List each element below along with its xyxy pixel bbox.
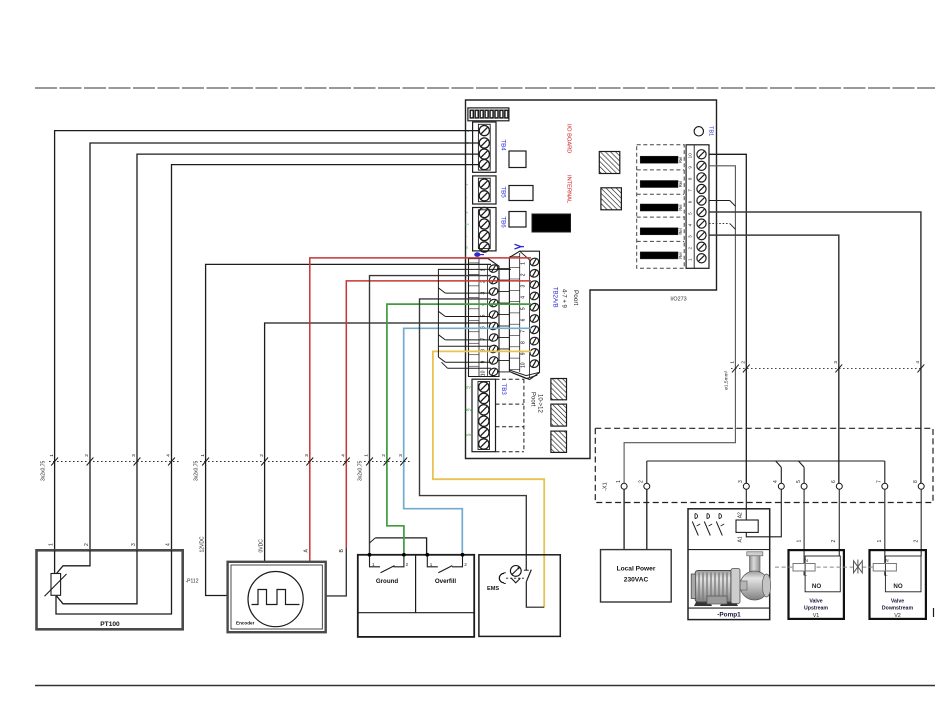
wire X1-8 to V2-2 bbox=[920, 489, 922, 556]
label Local Power 230VAC bbox=[617, 566, 656, 584]
label Poort 10->12 bbox=[530, 392, 543, 414]
svg-text:5: 5 bbox=[796, 480, 802, 483]
svg-text:Rel: Rel bbox=[678, 157, 683, 163]
cable marker o1,5mm2 bbox=[724, 361, 925, 390]
svg-text:3x2x0,75: 3x2x0,75 bbox=[194, 460, 200, 481]
Local Power box bbox=[601, 550, 672, 602]
PT100 wire number labels bbox=[49, 543, 172, 546]
svg-text:TB2A/B: TB2A/B bbox=[552, 287, 558, 308]
cable marker 3x2x0,75 PT100 bbox=[41, 454, 181, 481]
label Overfill bbox=[435, 578, 457, 585]
contactor coil A1/A2 bbox=[736, 512, 758, 543]
svg-text:Overfill: Overfill bbox=[435, 578, 457, 585]
svg-text:3: 3 bbox=[131, 543, 137, 546]
wire relay out 9 to X1-1 bbox=[624, 166, 735, 483]
wire X1-7 to V2 coil bbox=[884, 489, 886, 575]
TB6 green pin labels bbox=[465, 210, 470, 250]
svg-text:A2: A2 bbox=[738, 512, 744, 518]
relay K5 bbox=[640, 252, 683, 259]
blue node marker bbox=[474, 252, 484, 257]
svg-text:5: 5 bbox=[521, 307, 527, 310]
svg-text:Poort: Poort bbox=[530, 392, 536, 407]
TB4 green pin labels bbox=[465, 128, 469, 167]
svg-text:V2: V2 bbox=[894, 613, 901, 619]
svg-text:4: 4 bbox=[521, 296, 527, 299]
port hatched pad P12 bbox=[551, 431, 567, 452]
svg-text:-X1: -X1 bbox=[603, 482, 609, 491]
label -X1 bbox=[603, 482, 609, 491]
svg-text:9: 9 bbox=[688, 166, 693, 169]
label PT100 bbox=[100, 621, 120, 628]
svg-text:Upstream: Upstream bbox=[804, 606, 828, 612]
svg-text:Encoder: Encoder bbox=[236, 621, 255, 626]
svg-text:8: 8 bbox=[688, 177, 693, 180]
port 10-12 dashed box bbox=[496, 379, 524, 452]
label 4-7 + 9 bbox=[561, 289, 567, 309]
label EMS bbox=[487, 586, 499, 592]
text INTERNAL bbox=[566, 175, 572, 203]
relay K4 bbox=[640, 228, 683, 235]
wire X1-2 to local power bbox=[646, 489, 648, 549]
svg-text:4: 4 bbox=[341, 454, 346, 457]
encoder wire labels bbox=[200, 536, 345, 553]
svg-text:7: 7 bbox=[877, 480, 883, 483]
wire X1-3 to contactor coil A2 bbox=[745, 489, 747, 520]
svg-text:Local Power: Local Power bbox=[617, 566, 656, 573]
wire EMS return yellow bbox=[433, 351, 544, 607]
svg-text:3: 3 bbox=[833, 361, 838, 364]
wire PT100 conductor 3 bbox=[137, 154, 478, 550]
svg-text:I/O BOARD: I/O BOARD bbox=[566, 124, 572, 153]
svg-text:2: 2 bbox=[464, 562, 467, 567]
svg-text:TB1: TB1 bbox=[708, 126, 714, 136]
wire PT100 conductor 2 bbox=[90, 143, 478, 550]
svg-text:TB5: TB5 bbox=[500, 186, 507, 198]
svg-text:7: 7 bbox=[688, 189, 693, 192]
svg-text:TB6: TB6 bbox=[500, 216, 507, 228]
svg-text:Rel: Rel bbox=[678, 252, 683, 258]
X1 terminal circles 1-8 bbox=[616, 480, 924, 489]
label -Pomp1 bbox=[717, 612, 741, 619]
relay K3 bbox=[640, 204, 683, 211]
svg-text:3: 3 bbox=[398, 454, 403, 457]
IC U2 bbox=[509, 151, 526, 168]
RTD element R1 bbox=[45, 574, 67, 597]
svg-text:Valve: Valve bbox=[809, 599, 822, 605]
wire branch to overfill common bbox=[370, 538, 427, 555]
svg-text:TB4: TB4 bbox=[500, 139, 507, 151]
wire coil A1 to X1-4 bbox=[746, 489, 781, 537]
cable marker 3x2x0,75 encoder bbox=[194, 454, 353, 481]
mechanical link dashed bbox=[775, 566, 874, 568]
label Poort bbox=[572, 290, 579, 305]
terminal block TB4 bbox=[473, 122, 496, 172]
terminal block TB6 bbox=[473, 207, 496, 252]
svg-text:4: 4 bbox=[166, 454, 171, 457]
valve V1 box bbox=[789, 550, 844, 619]
svg-text:2: 2 bbox=[406, 562, 409, 567]
TB2A-TB2B mating links bbox=[497, 269, 509, 372]
header connector J1 bbox=[468, 108, 509, 121]
svg-text:INTERNAL: INTERNAL bbox=[566, 175, 572, 203]
svg-text:NO: NO bbox=[893, 583, 902, 590]
svg-text:2: 2 bbox=[381, 454, 386, 457]
svg-text:2: 2 bbox=[84, 543, 90, 546]
svg-text:Rel: Rel bbox=[678, 204, 683, 210]
svg-text:1: 1 bbox=[372, 562, 375, 567]
terminal block TB2A bbox=[469, 259, 500, 377]
svg-text:230VAC: 230VAC bbox=[624, 577, 649, 584]
svg-text:2: 2 bbox=[259, 454, 264, 457]
wire relay out 3 to X1-6 bbox=[709, 235, 839, 483]
wire relay out 4 dotted jog bbox=[709, 224, 735, 230]
IC U3 bbox=[509, 186, 533, 201]
svg-text:2: 2 bbox=[688, 246, 693, 249]
IC U5 black bbox=[532, 214, 571, 232]
label Ground bbox=[376, 578, 399, 585]
label NO V2 bbox=[893, 583, 902, 590]
svg-text:1: 1 bbox=[877, 540, 883, 543]
blue arrow marker A bbox=[515, 244, 525, 249]
svg-text:4: 4 bbox=[773, 480, 779, 483]
svg-text:A1: A1 bbox=[738, 536, 744, 542]
wire X1-1 to local power bbox=[623, 489, 625, 549]
wire encoder B red bbox=[326, 281, 531, 596]
svg-text:EMS: EMS bbox=[487, 586, 499, 592]
V1 solenoid coil bbox=[793, 558, 815, 577]
svg-text:3: 3 bbox=[738, 480, 744, 483]
top border line bbox=[35, 87, 935, 89]
svg-text:1: 1 bbox=[364, 454, 369, 457]
wire relay out 10 to X1-3 bbox=[709, 154, 746, 483]
svg-text:4: 4 bbox=[688, 223, 693, 226]
label Valve Upstream V1 bbox=[804, 599, 828, 620]
label TB6 bbox=[500, 216, 507, 228]
svg-text:8: 8 bbox=[913, 480, 919, 483]
svg-text:2: 2 bbox=[741, 361, 746, 364]
wire PT100 conductor 1 bbox=[55, 131, 478, 551]
svg-text:36V: 36V bbox=[465, 407, 472, 412]
svg-text:Ground: Ground bbox=[376, 578, 399, 585]
svg-text:7: 7 bbox=[521, 330, 527, 333]
svg-text:0VDC: 0VDC bbox=[259, 539, 265, 553]
svg-text:1: 1 bbox=[616, 480, 622, 483]
Ground/Overfill switch box bbox=[358, 555, 474, 637]
svg-text:1: 1 bbox=[430, 562, 433, 567]
TB5 green pin labels bbox=[466, 182, 469, 199]
valve V2 box bbox=[870, 550, 926, 619]
svg-text:4: 4 bbox=[915, 361, 920, 364]
PT100 sensor box bbox=[37, 550, 183, 629]
stray page mark bbox=[933, 608, 935, 617]
I/O board U1 outline bbox=[466, 100, 717, 459]
Encoder box bbox=[228, 562, 326, 632]
terminal block TB5 bbox=[473, 176, 496, 204]
svg-text:3x2x0,75: 3x2x0,75 bbox=[41, 460, 47, 481]
V2 solenoid coil bbox=[873, 558, 896, 577]
svg-text:I/O273: I/O273 bbox=[670, 297, 686, 303]
X1 common line terminals 2-4-5-7 bbox=[647, 461, 885, 483]
EMS box bbox=[479, 555, 560, 637]
wire PT100 conductor 4 bbox=[172, 165, 479, 551]
svg-text:4: 4 bbox=[166, 543, 172, 546]
label NO V1 bbox=[812, 583, 821, 590]
PT100 internal wiring bbox=[55, 550, 172, 614]
svg-text:3: 3 bbox=[304, 454, 309, 457]
wire ground return green bbox=[387, 304, 531, 555]
terminal strip -X1 dashed box bbox=[595, 428, 933, 502]
svg-text:8: 8 bbox=[521, 341, 527, 344]
svg-text:N: N bbox=[805, 558, 808, 563]
pipe valve symbol bbox=[854, 560, 863, 574]
TB2B-2 jumper bus bbox=[438, 269, 511, 368]
terminal block TB3 bbox=[472, 379, 496, 452]
cable marker 3x2x0,75 switches bbox=[358, 454, 412, 481]
wire encoder A red bbox=[310, 258, 531, 562]
encoder symbol circle bbox=[248, 572, 303, 627]
svg-text:PT100: PT100 bbox=[100, 621, 120, 628]
relay K2 bbox=[640, 181, 683, 188]
svg-text:3: 3 bbox=[131, 454, 136, 457]
svg-text:10: 10 bbox=[481, 370, 487, 376]
svg-text:1: 1 bbox=[49, 454, 54, 457]
svg-text:ø1,5mm²: ø1,5mm² bbox=[724, 370, 730, 390]
hatched component X3 bbox=[601, 188, 622, 210]
board label I/O273 bbox=[670, 297, 686, 303]
wire relay out 5 to X1-8 bbox=[709, 212, 921, 483]
relay bank dashed box bbox=[637, 145, 685, 268]
label TB5 bbox=[500, 186, 507, 198]
IC U4 bbox=[509, 212, 526, 228]
svg-text:2: 2 bbox=[84, 454, 89, 457]
contactor K1 power contacts bbox=[692, 514, 724, 536]
svg-text:Poort: Poort bbox=[572, 290, 579, 305]
TB3 green pin labels bbox=[465, 385, 472, 438]
label TB3 bbox=[500, 384, 507, 396]
pump drawing bbox=[691, 552, 771, 606]
svg-text:-P112: -P112 bbox=[186, 579, 199, 585]
svg-text:s: s bbox=[466, 245, 468, 250]
svg-text:TB3: TB3 bbox=[500, 384, 507, 396]
bottom border line bbox=[35, 685, 935, 687]
hatched component X2 bbox=[599, 152, 620, 174]
wire switch common bbox=[370, 276, 492, 555]
svg-text:s+: s+ bbox=[465, 222, 470, 227]
LED TB1 bbox=[694, 127, 703, 136]
terminal block TB2B plug bbox=[509, 251, 539, 379]
label TB1 bbox=[708, 126, 714, 136]
svg-text:3: 3 bbox=[688, 235, 693, 238]
svg-text:12VDC: 12VDC bbox=[200, 536, 206, 553]
label TB4 bbox=[500, 139, 507, 151]
svg-text:Valve: Valve bbox=[891, 599, 904, 605]
wire EMS feed bbox=[420, 299, 527, 570]
svg-text:3: 3 bbox=[521, 284, 527, 287]
svg-text:2: 2 bbox=[639, 480, 645, 483]
svg-text:NO: NO bbox=[812, 583, 821, 590]
svg-text:10: 10 bbox=[521, 362, 527, 368]
svg-text:s/h: s/h bbox=[466, 432, 471, 437]
Pump box bbox=[688, 509, 770, 620]
svg-text:1: 1 bbox=[796, 540, 802, 543]
svg-text:-Pomp1: -Pomp1 bbox=[717, 612, 741, 619]
switch Overfill S2 bbox=[425, 553, 467, 573]
svg-text:1: 1 bbox=[521, 262, 527, 265]
label TB2A/B bbox=[552, 287, 558, 308]
port hatched pad P10 bbox=[551, 379, 567, 400]
text I/O BOARD bbox=[566, 124, 572, 153]
svg-text:6: 6 bbox=[688, 200, 693, 203]
svg-text:2: 2 bbox=[913, 540, 919, 543]
wire relay out 6 jog bbox=[709, 201, 735, 207]
svg-text:6V: 6V bbox=[466, 385, 471, 390]
port hatched pad P11 bbox=[551, 404, 567, 426]
svg-text:6: 6 bbox=[521, 318, 527, 321]
label Encoder bbox=[236, 621, 255, 626]
svg-text:1: 1 bbox=[688, 258, 693, 261]
svg-text:1: 1 bbox=[730, 361, 735, 364]
svg-text:6: 6 bbox=[831, 480, 837, 483]
svg-text:1: 1 bbox=[200, 454, 205, 457]
svg-text:2: 2 bbox=[521, 273, 527, 276]
svg-text:2: 2 bbox=[831, 540, 837, 543]
svg-text:V1: V1 bbox=[813, 613, 820, 619]
wire overfill return blue bbox=[404, 328, 531, 555]
svg-text:1: 1 bbox=[49, 543, 55, 546]
valve wire labels V1 bbox=[796, 540, 837, 543]
wire 0VDC encoder bbox=[265, 323, 491, 562]
svg-text:N: N bbox=[885, 558, 888, 563]
svg-text:10->12: 10->12 bbox=[537, 394, 543, 414]
output terminal strip TB1 block bbox=[686, 145, 709, 268]
emergency stop switch bbox=[499, 566, 544, 608]
svg-text:Rel: Rel bbox=[678, 181, 683, 187]
wire X1-6 to V1-2 bbox=[838, 489, 840, 556]
wire 12VDC encoder bbox=[206, 264, 491, 595]
label -P112 bbox=[186, 579, 199, 585]
wire X1-5 to V1 coil bbox=[803, 489, 805, 575]
svg-text:9: 9 bbox=[521, 352, 527, 355]
svg-text:3x2x0,75: 3x2x0,75 bbox=[358, 460, 364, 481]
svg-text:Rel: Rel bbox=[678, 228, 683, 234]
svg-text:Downstream: Downstream bbox=[882, 606, 914, 612]
svg-text:4-7 + 9: 4-7 + 9 bbox=[561, 289, 567, 309]
label Valve Downstream V2 bbox=[882, 599, 914, 620]
valve wire labels V2 bbox=[877, 540, 919, 543]
relay K1 bbox=[640, 156, 683, 163]
switch Ground S1 bbox=[368, 553, 409, 573]
svg-text:10: 10 bbox=[688, 153, 693, 159]
svg-text:5: 5 bbox=[688, 212, 693, 215]
